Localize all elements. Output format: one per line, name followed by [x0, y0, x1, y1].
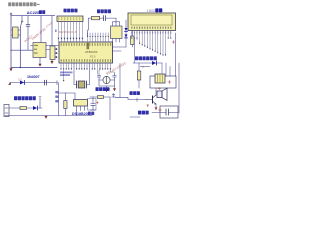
wire vert x120 — [119, 64, 121, 98]
node +5V mark LCD right — [172, 41, 175, 44]
wire branch to U3 — [11, 49, 31, 51]
capacitor C2 polarized — [104, 16, 106, 21]
label AC220V输入 — [27, 10, 45, 15]
wire sensor top — [9, 107, 42, 109]
crystal Y1 circle — [103, 76, 110, 83]
diode D3 — [124, 35, 127, 38]
wire top AC rail — [11, 15, 55, 17]
label 报警电路 — [130, 91, 140, 95]
box around C6 — [88, 99, 97, 111]
capacitor C5 inline — [44, 80, 46, 85]
diode D5 — [152, 61, 156, 65]
wire XTAL jog right — [110, 70, 114, 75]
ground under U3 — [39, 58, 41, 64]
wire U1 right to diode column — [113, 47, 127, 51]
node net label 1 — [55, 30, 57, 33]
pin numbers row LCD1 — [131, 27, 171, 29]
ground G1 — [9, 68, 12, 71]
resistor R6 — [64, 93, 66, 101]
svg-text:1N4007: 1N4007 — [27, 75, 40, 79]
wire LCD pin2 down — [133, 39, 135, 64]
transformer T1 — [13, 27, 19, 38]
pin numbers under LCD1 — [131, 32, 171, 34]
resistor R8 — [138, 63, 140, 71]
power +5V arrow — [112, 94, 115, 97]
connector B1 — [50, 46, 55, 60]
microcontroller U1 — [59, 42, 113, 63]
relay RL1 — [150, 76, 176, 88]
svg-text:DS18B20: DS18B20 — [72, 112, 88, 116]
ground osc — [104, 88, 110, 90]
node +mark relay — [168, 81, 171, 84]
wire left vertical L — [10, 16, 12, 68]
wire to buzzer base — [115, 97, 146, 99]
title 智能电热水器原理图 (dark char blobs) — [8, 2, 39, 6]
capacitor C3 — [97, 74, 103, 80]
red mark left of Q1 — [146, 105, 149, 108]
label 晶振电路 — [96, 87, 110, 91]
resistor R4 — [131, 36, 134, 45]
label 液晶显示电路 — [135, 56, 157, 60]
diode D2 — [125, 20, 127, 47]
diode D4 — [33, 106, 37, 110]
wire diode rail — [10, 82, 57, 84]
wire bus second — [140, 66, 150, 68]
node arrow left — [8, 82, 11, 85]
wire right rail — [178, 63, 180, 113]
node pin end ticks U1 bottom — [60, 68, 111, 69]
op-amp U3 regulator — [33, 43, 46, 58]
wire switch to bottom rail — [19, 28, 21, 68]
svg-text:RESPACK-8: RESPACK-8 — [59, 30, 77, 34]
node bus ticks U1 top — [87, 36, 109, 37]
node end tick — [56, 81, 58, 85]
op-amp U2 — [111, 26, 123, 39]
capacitor C6 — [91, 97, 95, 110]
capacitor C7 box — [160, 106, 178, 118]
capacitor C1 — [27, 16, 29, 25]
svg-text:P2.0: P2.0 — [90, 55, 96, 59]
wire U1 top pins — [88, 37, 109, 43]
node input terminal arrow — [10, 13, 12, 16]
net labels left of sensor — [55, 91, 58, 102]
resistor R7 — [98, 96, 104, 99]
resistor R5 — [20, 107, 26, 110]
wire vert x110 — [109, 97, 111, 120]
wire lcd lower rail — [133, 62, 162, 64]
wire mid vertical — [40, 16, 42, 43]
label 温度传感器电路 — [14, 96, 36, 100]
wire DS branch — [58, 93, 75, 100]
capacitor C4 — [110, 74, 116, 80]
crystal X1 — [74, 63, 77, 85]
ground under B1 — [51, 60, 53, 61]
node pin marks RP1 — [58, 38, 84, 40]
connector J1 — [4, 105, 9, 117]
node pin arrow P1.2 — [63, 80, 65, 82]
label 复位电路 — [97, 9, 111, 13]
speaker LS1 — [157, 91, 162, 98]
LCD module LCD1 — [128, 13, 176, 31]
pin number text under U1 — [60, 72, 73, 77]
resistor R3 — [92, 16, 100, 19]
wire U1 bottom pins — [61, 63, 110, 80]
red +mark bottom — [159, 109, 162, 112]
wire bottom left short — [130, 116, 140, 118]
ground Q1 red — [155, 107, 158, 110]
wire hline vcc — [90, 96, 110, 98]
value label AT89C52 inside U1 — [87, 43, 90, 50]
wire mid vertical long — [57, 83, 59, 116]
svg-text:AT89C52: AT89C52 — [85, 50, 98, 54]
wire right vertical to resistor — [51, 16, 53, 46]
label 上拉电阻 — [64, 9, 78, 13]
switch SW1 — [20, 16, 22, 28]
wire osc bottom — [99, 80, 115, 86]
wire XTAL jog left — [99, 63, 100, 74]
wire LCD pins — [132, 31, 171, 56]
wire RP1 pins — [59, 22, 83, 43]
ground sensor — [45, 116, 48, 119]
diode D1 — [20, 81, 24, 85]
wire ground rail left — [11, 67, 57, 69]
wire LCD right rail — [175, 33, 177, 76]
transistor Q1 — [146, 99, 153, 101]
sensor DS18B20 — [74, 100, 88, 107]
resistor pack RP1 — [57, 16, 83, 22]
pin labels U1 top row — [61, 43, 112, 46]
wire sensor branch up — [39, 98, 41, 108]
node LCD pin arrows — [139, 43, 166, 56]
label 蜂鸣器 — [138, 111, 149, 115]
pin numbers above U1 top pins — [87, 33, 109, 35]
pin labels U1 bottom row — [61, 59, 112, 62]
wire sensor bottom rail — [5, 115, 92, 117]
svg-text:1602: 1602 — [147, 8, 157, 13]
ground right of osc — [114, 86, 116, 88]
